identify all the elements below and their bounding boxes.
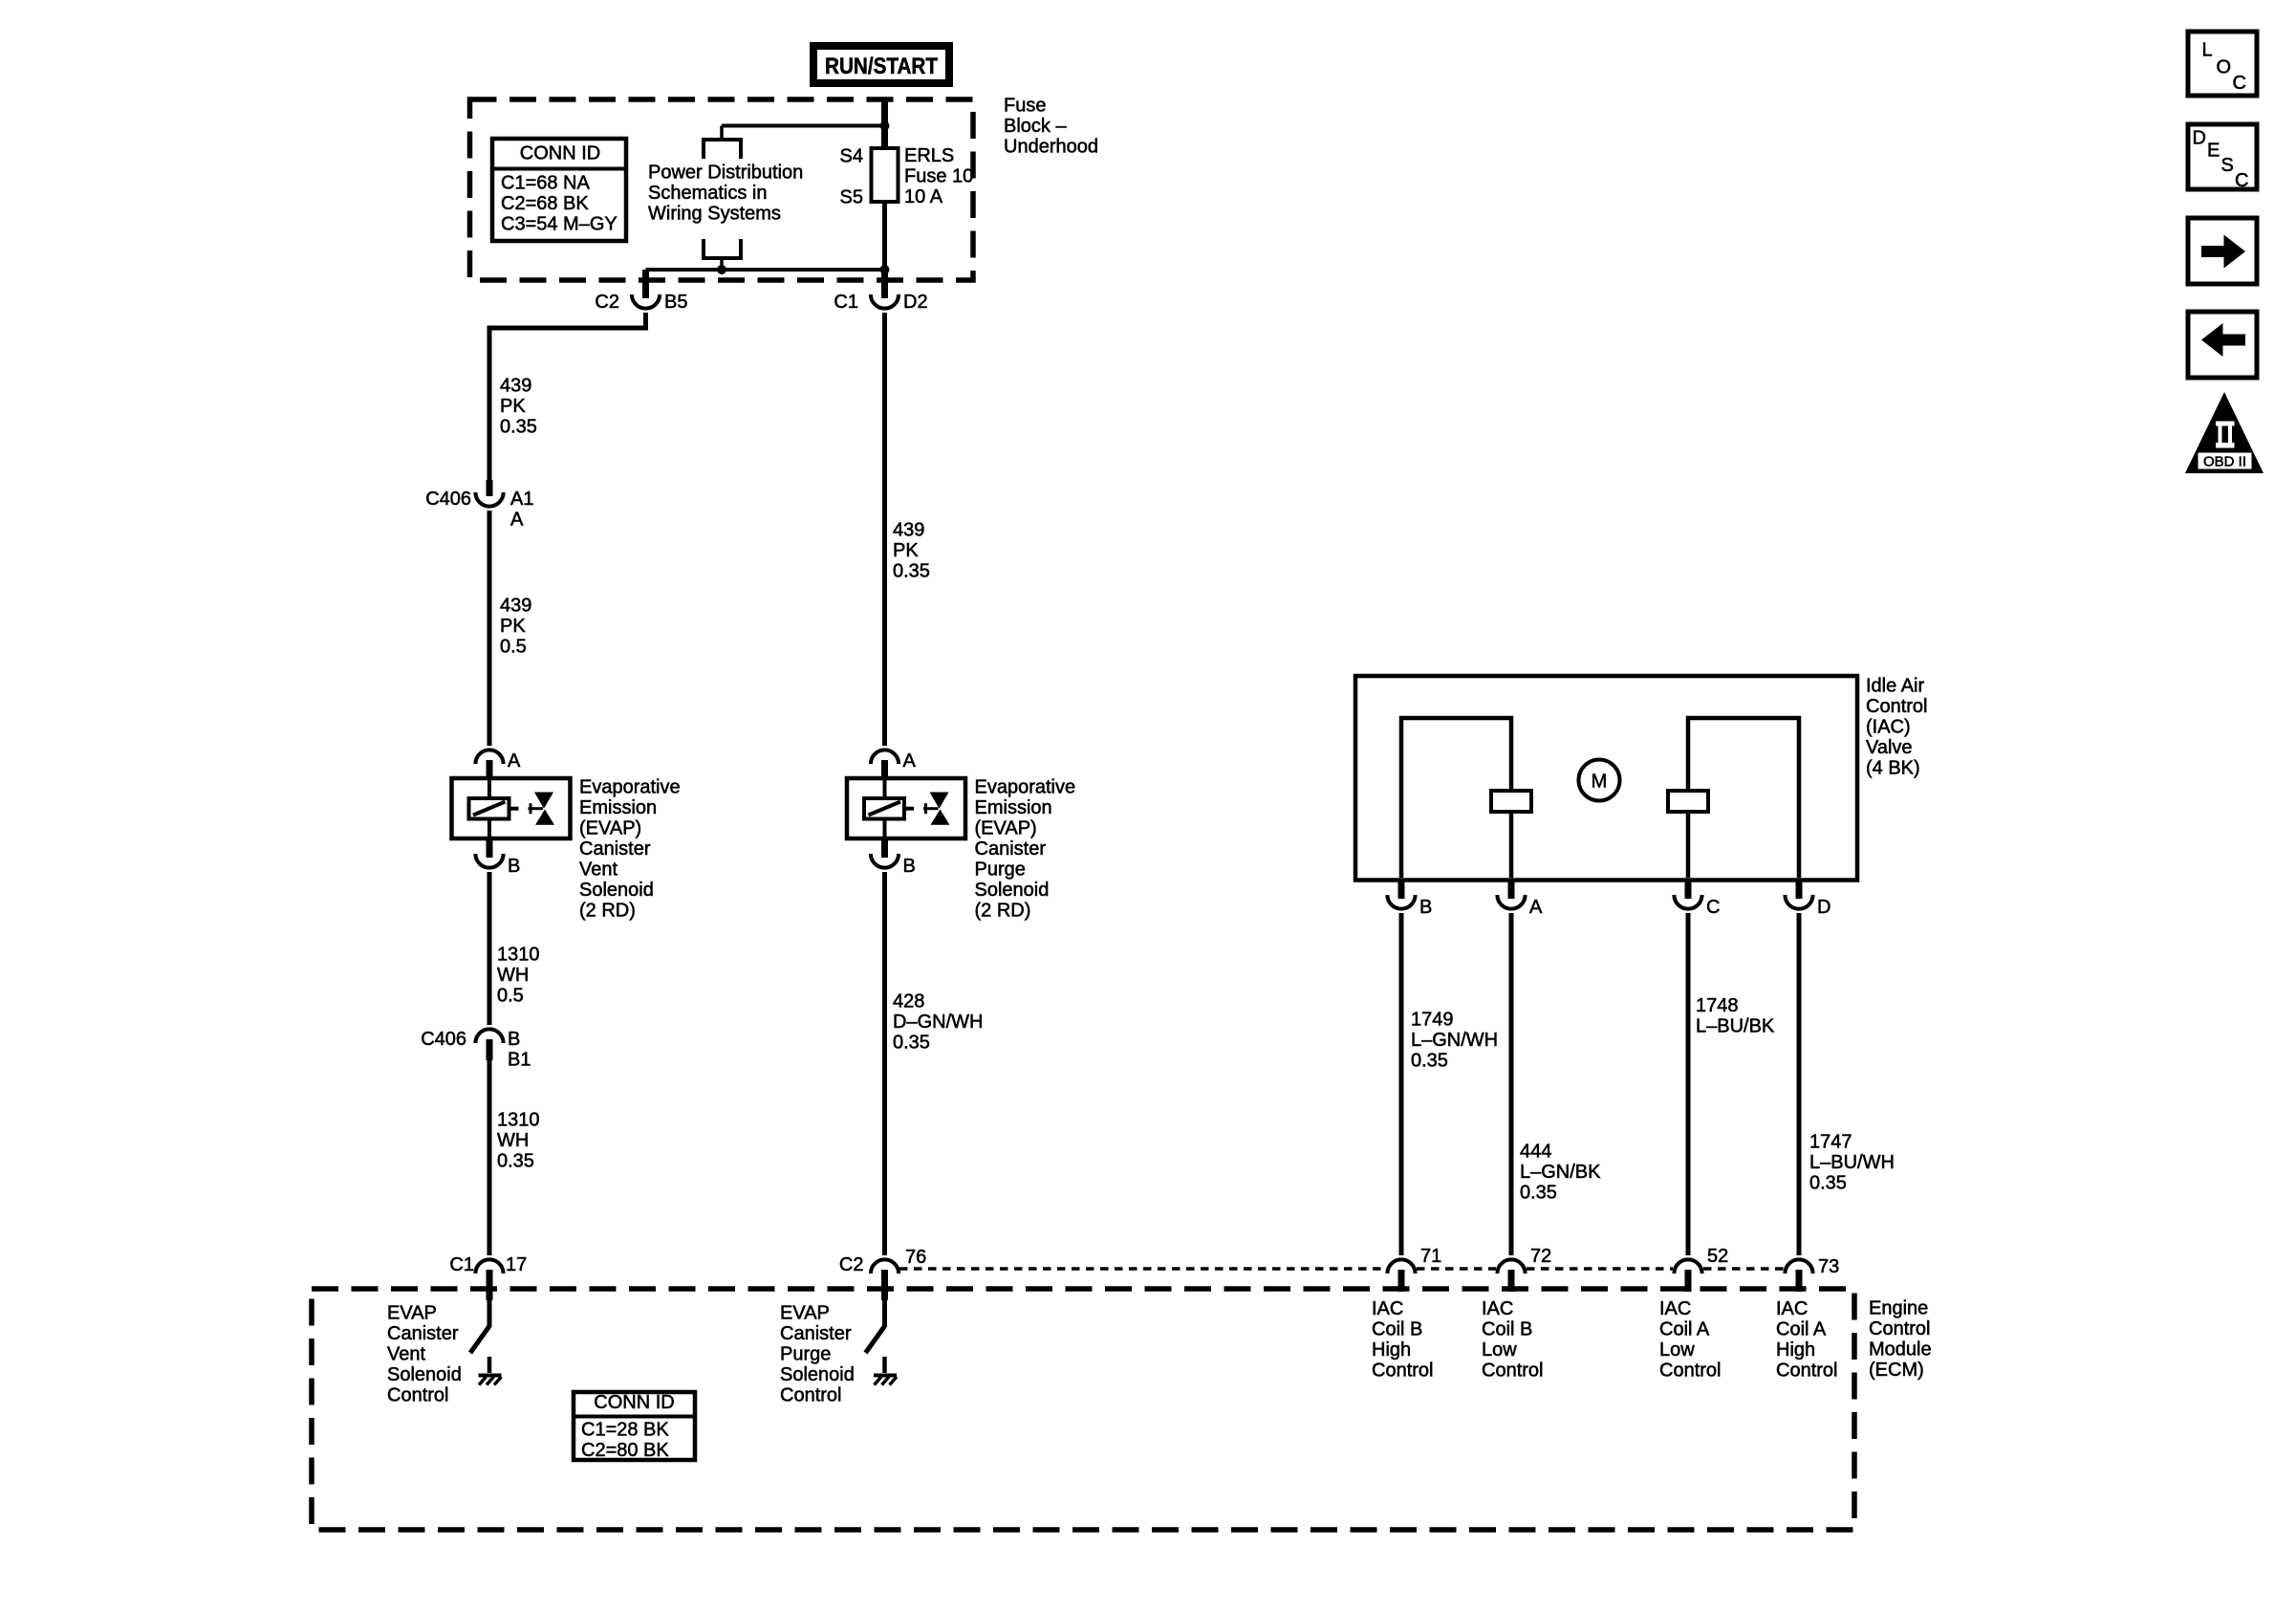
- svg-text:S5: S5: [840, 187, 863, 208]
- svg-text:0.35: 0.35: [1809, 1173, 1847, 1194]
- svg-text:A: A: [508, 751, 521, 772]
- svg-text:Canister: Canister: [780, 1323, 852, 1344]
- svg-text:Coil B: Coil B: [1482, 1319, 1532, 1340]
- svg-text:(2 RD): (2 RD): [579, 901, 636, 922]
- svg-text:ERLS: ERLS: [904, 145, 954, 166]
- svg-text:Evaporative: Evaporative: [975, 777, 1076, 798]
- svg-text:High: High: [1372, 1339, 1411, 1361]
- svg-text:B: B: [508, 856, 520, 877]
- svg-text:72: 72: [1530, 1246, 1551, 1267]
- svg-text:B: B: [903, 856, 916, 877]
- svg-text:A: A: [1529, 897, 1543, 918]
- svg-text:0.35: 0.35: [1411, 1051, 1448, 1072]
- svg-text:WH: WH: [497, 965, 529, 986]
- svg-text:17: 17: [506, 1254, 527, 1275]
- svg-text:B5: B5: [664, 292, 687, 313]
- svg-text:C1: C1: [834, 292, 858, 313]
- svg-text:10 A: 10 A: [904, 186, 943, 207]
- svg-text:Module: Module: [1869, 1339, 1932, 1361]
- svg-text:D–GN/WH: D–GN/WH: [893, 1012, 983, 1033]
- svg-text:PK: PK: [893, 540, 919, 561]
- svg-text:Solenoid: Solenoid: [780, 1364, 855, 1385]
- svg-text:D: D: [1817, 897, 1830, 918]
- svg-text:Canister: Canister: [387, 1323, 459, 1344]
- svg-text:439: 439: [500, 596, 531, 617]
- svg-text:Underhood: Underhood: [1004, 137, 1098, 158]
- svg-text:E: E: [2207, 141, 2220, 162]
- svg-text:0.35: 0.35: [893, 1033, 930, 1054]
- svg-text:1310: 1310: [497, 945, 540, 966]
- svg-text:Control: Control: [1776, 1361, 1837, 1382]
- svg-text:Idle Air: Idle Air: [1866, 676, 1924, 697]
- svg-text:Coil A: Coil A: [1776, 1319, 1827, 1340]
- svg-text:C: C: [2235, 170, 2248, 191]
- svg-text:OBD II: OBD II: [2203, 454, 2246, 470]
- svg-text:439: 439: [500, 376, 531, 397]
- svg-text:PK: PK: [500, 616, 526, 637]
- svg-text:C2: C2: [595, 292, 619, 313]
- svg-text:C1=28 BK: C1=28 BK: [581, 1420, 669, 1441]
- svg-text:0.35: 0.35: [497, 1151, 534, 1172]
- svg-text:Purge: Purge: [780, 1344, 831, 1365]
- svg-text:C1=68 NA: C1=68 NA: [501, 173, 590, 194]
- svg-text:C2: C2: [839, 1254, 864, 1275]
- svg-text:WH: WH: [497, 1130, 529, 1151]
- svg-text:Engine: Engine: [1869, 1298, 1928, 1319]
- svg-text:Schematics in: Schematics in: [648, 183, 768, 204]
- svg-text:Emission: Emission: [975, 797, 1052, 818]
- svg-text:IAC: IAC: [1776, 1298, 1808, 1319]
- svg-text:High: High: [1776, 1339, 1815, 1361]
- svg-text:Wiring Systems: Wiring Systems: [648, 204, 781, 225]
- svg-text:0.35: 0.35: [500, 417, 537, 438]
- svg-text:Block –: Block –: [1004, 116, 1067, 137]
- svg-text:0.5: 0.5: [497, 986, 524, 1007]
- svg-text:Control: Control: [1482, 1361, 1543, 1382]
- svg-text:Low: Low: [1482, 1339, 1517, 1361]
- svg-text:Control: Control: [1659, 1361, 1721, 1382]
- svg-text:L–GN/BK: L–GN/BK: [1520, 1162, 1601, 1183]
- svg-text:(ECM): (ECM): [1869, 1360, 1924, 1381]
- svg-text:Valve: Valve: [1866, 737, 1913, 758]
- svg-text:Canister: Canister: [975, 838, 1047, 860]
- svg-text:Coil A: Coil A: [1659, 1319, 1710, 1340]
- svg-text:C: C: [1706, 897, 1720, 918]
- svg-text:0.35: 0.35: [1520, 1183, 1557, 1204]
- svg-text:C3=54 M–GY: C3=54 M–GY: [501, 214, 617, 235]
- svg-text:C2=68 BK: C2=68 BK: [501, 193, 589, 214]
- svg-text:0.35: 0.35: [893, 561, 930, 582]
- svg-text:Control: Control: [1372, 1361, 1433, 1382]
- svg-text:RUN/START: RUN/START: [825, 54, 938, 79]
- svg-text:CONN ID: CONN ID: [594, 1392, 674, 1413]
- svg-text:EVAP: EVAP: [387, 1303, 437, 1324]
- svg-text:C2=80 BK: C2=80 BK: [581, 1440, 669, 1461]
- svg-text:B: B: [1419, 897, 1432, 918]
- svg-text:1749: 1749: [1411, 1010, 1454, 1031]
- svg-text:D2: D2: [903, 292, 928, 313]
- svg-text:C1: C1: [449, 1254, 474, 1275]
- svg-text:Control: Control: [387, 1385, 448, 1406]
- svg-text:1748: 1748: [1696, 995, 1739, 1016]
- svg-text:Purge: Purge: [975, 860, 1026, 881]
- svg-text:Control: Control: [780, 1385, 841, 1406]
- svg-text:O: O: [2217, 57, 2232, 78]
- svg-text:Evaporative: Evaporative: [579, 777, 681, 798]
- svg-text:73: 73: [1818, 1256, 1839, 1277]
- svg-text:C406: C406: [425, 489, 471, 510]
- svg-text:M: M: [1592, 772, 1608, 793]
- svg-text:PK: PK: [500, 396, 526, 417]
- svg-text:Coil B: Coil B: [1372, 1319, 1422, 1340]
- svg-text:L–BU/BK: L–BU/BK: [1696, 1016, 1775, 1037]
- svg-text:Vent: Vent: [579, 860, 617, 881]
- svg-text:S: S: [2221, 155, 2234, 176]
- svg-text:Fuse: Fuse: [1004, 96, 1046, 117]
- svg-text:CONN ID: CONN ID: [520, 143, 600, 164]
- svg-text:444: 444: [1520, 1142, 1551, 1163]
- svg-text:L–BU/WH: L–BU/WH: [1809, 1152, 1895, 1173]
- svg-text:76: 76: [905, 1247, 926, 1268]
- svg-text:(4 BK): (4 BK): [1866, 758, 1920, 779]
- svg-text:71: 71: [1420, 1246, 1441, 1267]
- svg-text:(EVAP): (EVAP): [579, 818, 641, 839]
- svg-text:C: C: [2233, 73, 2246, 94]
- svg-text:IAC: IAC: [1482, 1298, 1513, 1319]
- svg-text:(EVAP): (EVAP): [975, 818, 1037, 839]
- svg-text:439: 439: [893, 520, 924, 541]
- svg-text:IAC: IAC: [1659, 1298, 1691, 1319]
- svg-text:B: B: [508, 1029, 520, 1050]
- svg-text:428: 428: [893, 991, 924, 1012]
- svg-text:Solenoid: Solenoid: [579, 880, 654, 901]
- svg-text:L: L: [2202, 40, 2213, 61]
- svg-text:0.5: 0.5: [500, 637, 527, 658]
- svg-text:52: 52: [1707, 1246, 1728, 1267]
- svg-text:Power Distribution: Power Distribution: [648, 163, 803, 184]
- svg-text:EVAP: EVAP: [780, 1303, 830, 1324]
- svg-text:D: D: [2193, 128, 2206, 149]
- svg-text:(2 RD): (2 RD): [975, 901, 1031, 922]
- svg-text:Control: Control: [1866, 696, 1927, 717]
- svg-text:IAC: IAC: [1372, 1298, 1403, 1319]
- svg-text:A: A: [903, 751, 917, 772]
- svg-text:C406: C406: [421, 1029, 466, 1050]
- svg-text:(IAC): (IAC): [1866, 717, 1911, 738]
- svg-text:Emission: Emission: [579, 797, 657, 818]
- svg-text:1310: 1310: [497, 1110, 540, 1131]
- svg-text:Control: Control: [1869, 1318, 1930, 1339]
- svg-text:Fuse 10: Fuse 10: [904, 166, 973, 187]
- svg-text:B1: B1: [508, 1050, 531, 1071]
- svg-text:Low: Low: [1659, 1339, 1695, 1361]
- svg-text:S4: S4: [840, 146, 863, 167]
- svg-text:L–GN/WH: L–GN/WH: [1411, 1030, 1498, 1051]
- svg-text:A: A: [510, 510, 524, 531]
- svg-text:1747: 1747: [1809, 1132, 1852, 1153]
- svg-text:Solenoid: Solenoid: [387, 1364, 462, 1385]
- svg-text:A1: A1: [510, 489, 533, 510]
- svg-text:Vent: Vent: [387, 1344, 425, 1365]
- svg-text:Solenoid: Solenoid: [975, 880, 1050, 901]
- svg-text:Canister: Canister: [579, 838, 651, 860]
